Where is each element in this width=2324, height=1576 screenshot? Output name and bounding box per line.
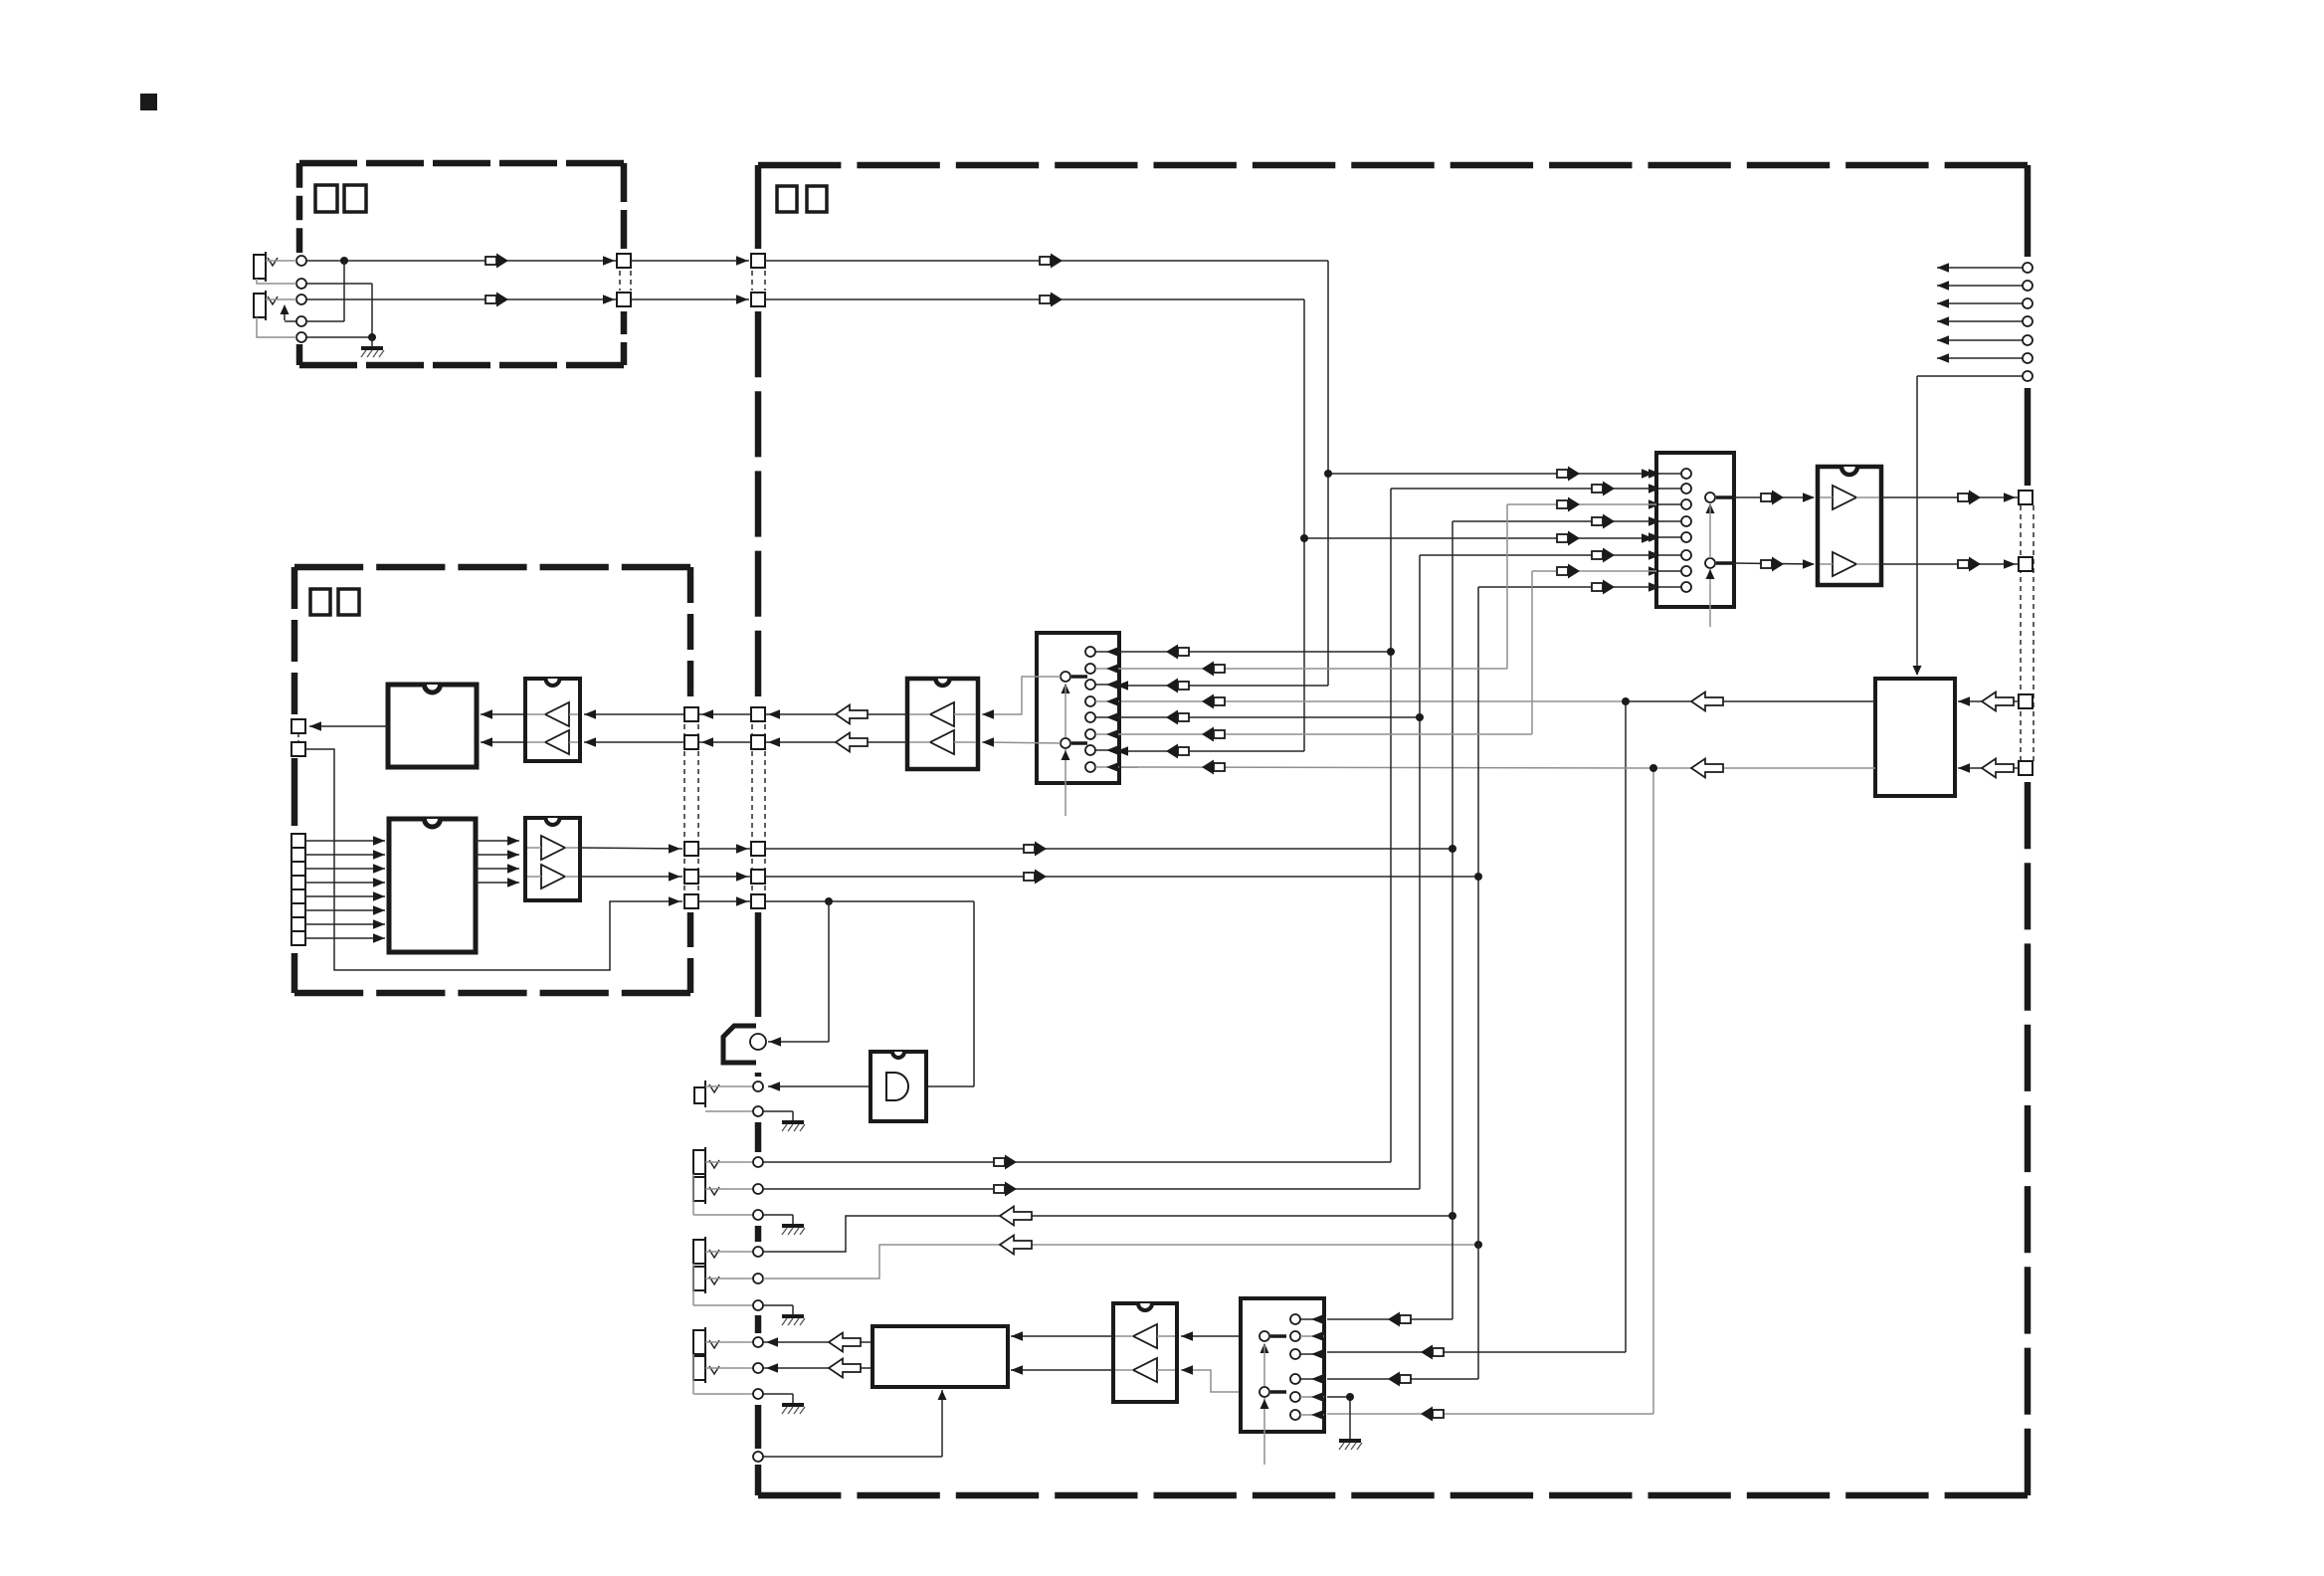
- wire IC101 out: [309, 721, 388, 731]
- wire to mic mute: [768, 901, 829, 1047]
- panel label glyph box 2: [338, 589, 359, 615]
- wire net LINE-R: [763, 548, 1656, 1197]
- wire phones R: [763, 1359, 872, 1378]
- ground (phones): [763, 1394, 805, 1414]
- mute gate IC203: [871, 1052, 926, 1121]
- front panel boundary box: [294, 567, 690, 993]
- IC103 output wires: [476, 836, 519, 887]
- wire tuner R to main: [631, 295, 749, 304]
- wire tape mon L: [763, 1207, 1452, 1253]
- connector CN203 (main side): [751, 707, 765, 908]
- wire mute to amp: [763, 1390, 947, 1457]
- tuner unit boundary box: [299, 163, 624, 365]
- wire S1 wiper2 to IC202: [982, 737, 1061, 747]
- connector CN102 (panel side): [684, 707, 698, 908]
- tuner label glyph box 1: [315, 185, 337, 212]
- wire rec out L: [1881, 491, 2019, 505]
- play buffer IC202: [907, 679, 978, 769]
- wire tuner L to main: [631, 256, 749, 266]
- wire connector row 1: [698, 709, 751, 719]
- monitor selector switch S3: [1241, 1298, 1324, 1465]
- display driver IC101: [388, 685, 477, 767]
- power/control stub wires: [1937, 263, 2023, 363]
- main label glyph box 2: [807, 186, 827, 212]
- wire connector row 4: [698, 872, 751, 882]
- wire amp in L: [1011, 1331, 1113, 1341]
- wire CN102 to buffer a: [584, 709, 684, 719]
- wire S2 wiper1 to IC301: [1734, 491, 1815, 505]
- wire play L to connector: [765, 705, 907, 724]
- junction: [1474, 1241, 1482, 1249]
- wire net AUX-L: [1119, 497, 1656, 677]
- wire panel control to main: [305, 749, 682, 970]
- wire key out L: [580, 844, 682, 854]
- wire remote to DIN block: [1913, 376, 2024, 676]
- headphone amp IC204: [872, 1326, 1008, 1387]
- junction: [1416, 713, 1424, 721]
- junction: [340, 257, 348, 265]
- wire key out R: [580, 872, 682, 882]
- function selector switch S1: [1037, 633, 1119, 816]
- mute terminal: [753, 1452, 763, 1462]
- junction: [1474, 873, 1482, 881]
- wire S3 wiper2 to IC205: [1181, 1365, 1259, 1392]
- wire DIN in L: [1958, 692, 2019, 711]
- wire connector row 5: [698, 896, 751, 906]
- rec-out buffer IC301: [1818, 467, 1881, 585]
- right edge terminals: [2023, 263, 2033, 381]
- wire net DIN-L: [1119, 692, 1875, 1360]
- key input wires: [305, 836, 385, 943]
- wire phones L: [763, 1333, 872, 1352]
- section marker: [140, 94, 157, 110]
- tape monitor jacks J203/J204: [693, 1237, 763, 1310]
- monitor buffer IC205: [1113, 1303, 1177, 1402]
- wire S2 wiper2 to IC301: [1734, 557, 1815, 572]
- wire play R to connector: [765, 733, 907, 752]
- ground (tape mon): [763, 1305, 805, 1325]
- wire net TAPE-PB-R feed: [765, 870, 1478, 885]
- ground (S3): [1339, 1430, 1362, 1450]
- key connector strip: [291, 834, 305, 945]
- wire S1 wiper1 to IC202: [982, 677, 1061, 719]
- wire connector row 2: [698, 737, 751, 747]
- junction: [1449, 1212, 1456, 1220]
- mic mute switch: [723, 1026, 766, 1063]
- ground (mic): [763, 1111, 805, 1131]
- main unit boundary box: [758, 165, 2028, 1495]
- connector CN103 (panel left): [291, 719, 305, 756]
- wire buffer to IC101 a: [481, 709, 525, 719]
- junction: [825, 897, 833, 905]
- mic jack J205: [694, 1081, 763, 1116]
- panel buffer IC104: [525, 818, 580, 900]
- main label glyph box 1: [777, 186, 797, 212]
- phones jacks J206/J207: [693, 1327, 763, 1399]
- wire net TAPE-L: [1327, 514, 1656, 1327]
- tuner label glyph box 2: [344, 185, 366, 212]
- wire CN102 to buffer b: [584, 737, 684, 747]
- wire net TAPE-PB-L feed: [765, 842, 1452, 857]
- junction: [1324, 470, 1332, 478]
- wire control row to gate: [765, 901, 974, 1091]
- record selector switch S2: [1648, 453, 1734, 627]
- wire rec out R: [1881, 557, 2019, 572]
- wire net TUNER-L: [765, 254, 1656, 693]
- wire net TAPE-R: [1327, 580, 1656, 1387]
- wire connector row 3: [698, 844, 751, 854]
- wire net DIN-R: [1119, 759, 1875, 1422]
- wire tuner L out: [306, 254, 617, 269]
- wire S3 wiper1 to IC205: [1181, 1331, 1259, 1341]
- wire DIN in R: [1958, 759, 2019, 778]
- line-in jacks J201/J202: [693, 1147, 763, 1220]
- wire net TUNER-R: [765, 293, 1656, 759]
- tuner jack J101 (L): [254, 252, 306, 289]
- wire tuner jack grounds: [306, 284, 372, 337]
- tuner jack J102 (R): [254, 291, 306, 342]
- junction: [1346, 1393, 1354, 1401]
- connector CN101 (tuner side): [617, 254, 631, 306]
- junction: [1622, 697, 1630, 705]
- ground (tuner): [361, 337, 384, 357]
- wire buffer to IC101 b: [481, 737, 525, 747]
- ground (line-in): [763, 1215, 805, 1235]
- key matrix IC103: [389, 819, 476, 952]
- wire S3 ground pin: [1327, 1397, 1350, 1430]
- wire tuner R out: [306, 293, 617, 307]
- wire net LINE-L: [763, 482, 1656, 1170]
- wire amp in R: [1011, 1365, 1113, 1375]
- junction: [368, 333, 376, 341]
- wire tape mon R: [763, 1236, 1478, 1280]
- connector CN202 (right edge): [2019, 491, 2033, 775]
- junction: [1387, 648, 1395, 656]
- wire net AUX-R: [1119, 564, 1656, 742]
- panel label glyph box 1: [310, 589, 330, 615]
- wire tuner L link: [306, 261, 344, 321]
- junction: [1300, 534, 1308, 542]
- junction: [1449, 845, 1456, 853]
- connector CN201 (main side): [751, 254, 765, 306]
- junction: [1649, 764, 1657, 772]
- panel buffer IC102: [525, 679, 580, 761]
- DIN adapter block: [1875, 679, 1955, 796]
